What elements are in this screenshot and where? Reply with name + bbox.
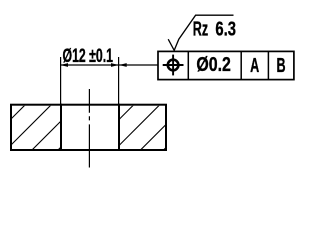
svg-text:6.3: 6.3 — [215, 19, 236, 41]
svg-text:Ø12 ±0.1: Ø12 ±0.1 — [63, 45, 114, 67]
svg-text:A: A — [250, 55, 259, 77]
svg-text:Ø0.2: Ø0.2 — [196, 54, 231, 76]
svg-text:Rz: Rz — [193, 19, 208, 41]
svg-text:B: B — [277, 55, 286, 77]
